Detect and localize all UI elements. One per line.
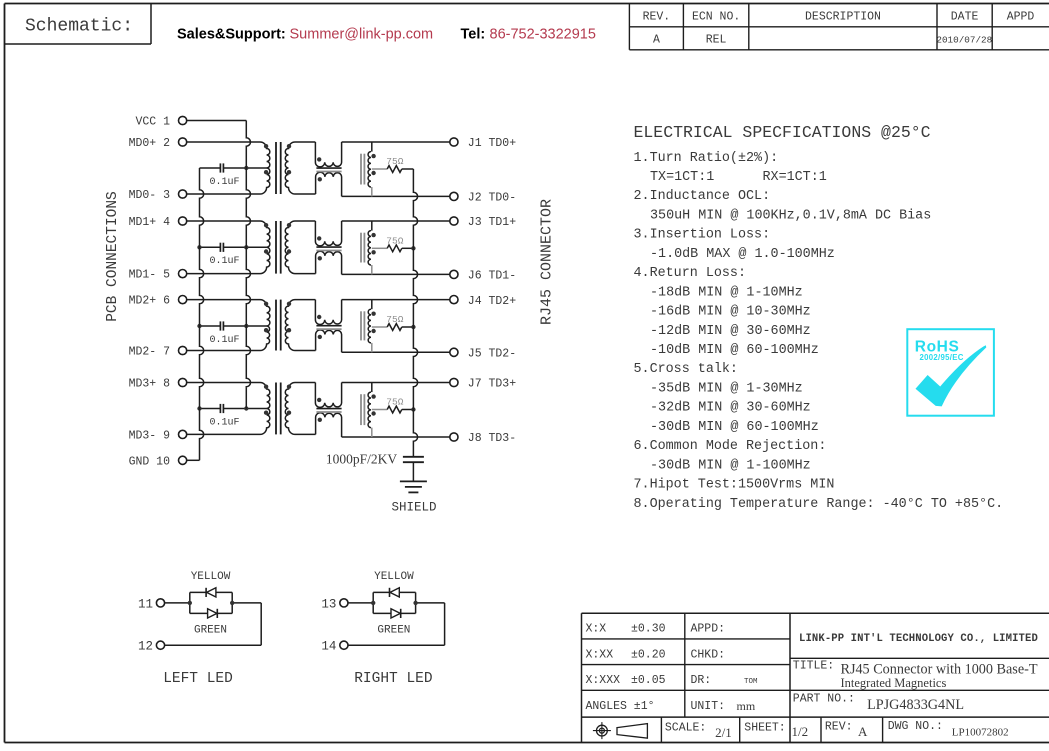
svg-text:J3 TD1+: J3 TD1+ (468, 216, 516, 229)
wire to J1 (342, 141, 450, 143)
svg-text:0.1uF: 0.1uF (209, 256, 239, 267)
svg-text:-16dB MIN @ 10-30MHz: -16dB MIN @ 10-30MHz (650, 305, 811, 320)
connector pin J5 TD2- (450, 348, 516, 361)
resistor R2 75ohm (372, 235, 414, 251)
svg-text:12: 12 (138, 640, 153, 654)
svg-text:ECN NO.: ECN NO. (692, 11, 740, 24)
transformer T2 core (276, 221, 281, 274)
svg-text:±0.30: ±0.30 (631, 623, 666, 636)
svg-text:PART NO.:: PART NO.: (793, 693, 855, 706)
svg-text:8.Operating Temperature Range:: 8.Operating Temperature Range: -40°C TO … (634, 497, 1004, 512)
junction: R4/termination rail (411, 407, 415, 411)
autotransformer A4 core (361, 394, 364, 425)
svg-text:Integrated Magnetics: Integrated Magnetics (840, 676, 946, 690)
svg-text:Tel:: Tel: (461, 27, 486, 43)
pin 5 MD1- (129, 269, 187, 282)
junction: C4/GND rail (197, 406, 201, 410)
svg-text:Schematic:: Schematic: (25, 17, 133, 37)
connector pin J4 TD2+ (450, 295, 516, 308)
title block grid (582, 613, 1049, 743)
svg-text:-32dB MIN @ 30-60MHz: -32dB MIN @ 30-60MHz (650, 401, 811, 416)
svg-text:ELECTRICAL SPECFICATIONS @25°C: ELECTRICAL SPECFICATIONS @25°C (634, 123, 931, 142)
svg-text:X:XXX: X:XXX (586, 674, 621, 687)
transformer T3 primary winding (187, 300, 270, 351)
svg-text:J1 TD0+: J1 TD0+ (468, 137, 516, 150)
junction: C2/VCC rail (244, 245, 248, 249)
wire to J6 (342, 273, 450, 275)
svg-text:±0.05: ±0.05 (631, 674, 666, 687)
svg-text:APPD: APPD (1007, 11, 1035, 24)
svg-text:GND 10: GND 10 (129, 455, 171, 468)
wire to J7 (342, 382, 450, 384)
svg-text:-30dB MIN @ 1-100MHz: -30dB MIN @ 1-100MHz (650, 458, 811, 473)
junction: C4/VCC rail (244, 406, 248, 410)
autotransformer A4 winding (368, 383, 376, 438)
svg-text:LEFT LED: LEFT LED (163, 671, 233, 687)
svg-text:11: 11 (138, 597, 153, 611)
pin 12 (138, 640, 165, 654)
svg-text:LINK-PP INT'L TECHNOLOGY CO.,: LINK-PP INT'L TECHNOLOGY CO., LIMITED (799, 633, 1038, 645)
PCB CONNECTIONS label (105, 191, 121, 322)
junction: C2/GND rail (197, 245, 201, 249)
svg-text:PCB CONNECTIONS: PCB CONNECTIONS (105, 191, 121, 322)
svg-text:REV.: REV. (643, 11, 671, 24)
tolerance table text (586, 623, 759, 714)
projection symbol (593, 722, 648, 739)
pin 8 MD3+ (129, 378, 187, 391)
common-mode choke L4 (315, 383, 341, 438)
svg-text:mm: mm (737, 699, 756, 713)
svg-text:MD0- 3: MD0- 3 (129, 189, 171, 202)
diode yellow LED (RIGHT LED) (374, 571, 414, 597)
svg-text:DR:: DR: (691, 674, 712, 687)
pin 11 (138, 597, 165, 611)
GND wire pin10 (187, 459, 200, 461)
pin 10 GND (129, 455, 187, 468)
common-mode choke L1 (315, 142, 341, 196)
wire secondary T1 to choke (295, 142, 316, 194)
svg-text:MD2+ 6: MD2+ 6 (129, 295, 171, 308)
svg-text:DWG NO.:: DWG NO.: (888, 720, 943, 733)
svg-text:SHEET:: SHEET: (744, 722, 785, 735)
shield ground (391, 481, 436, 514)
junction: C3/VCC rail (244, 324, 248, 328)
transformer T3 core (276, 300, 281, 351)
svg-text:5.Cross talk:: 5.Cross talk: (634, 362, 738, 377)
svg-text:MD0+ 2: MD0+ 2 (129, 137, 171, 150)
VCC rail (246, 121, 250, 409)
transformer T2 secondary winding (285, 221, 295, 274)
svg-text:75Ω: 75Ω (386, 156, 403, 167)
svg-text:GREEN: GREEN (377, 625, 410, 637)
svg-text:1.Turn Ratio(±2%):: 1.Turn Ratio(±2%): (634, 151, 779, 166)
wire secondary T2 to choke (295, 221, 316, 274)
svg-text:J4 TD2+: J4 TD2+ (468, 295, 516, 308)
connector pin J1 TD0+ (450, 137, 516, 150)
transformer T1 core (276, 142, 281, 194)
svg-text:ANGLES ±1°: ANGLES ±1° (586, 700, 655, 713)
diode green LED (RIGHT LED) (377, 609, 410, 637)
svg-text:14: 14 (321, 640, 336, 654)
svg-text:VCC 1: VCC 1 (135, 116, 170, 129)
diode green LED (LEFT LED) (194, 609, 227, 637)
svg-text:GREEN: GREEN (194, 625, 227, 637)
revision table (629, 4, 1049, 50)
svg-text:3.Insertion Loss:: 3.Insertion Loss: (634, 228, 771, 243)
pin 6 MD2+ (129, 295, 187, 308)
capacitor C1 0.1uF (200, 163, 267, 187)
svg-text:X:X: X:X (586, 623, 607, 636)
svg-text:350uH MIN @ 100KHz,0.1V,8mA DC: 350uH MIN @ 100KHz,0.1V,8mA DC Bias (650, 208, 931, 223)
autotransformer A2 winding (368, 221, 376, 274)
autotransformer A2 core (361, 233, 364, 263)
title text (793, 660, 1038, 690)
autotransformer A3 core (361, 311, 364, 340)
svg-text:86-752-3322915: 86-752-3322915 (490, 27, 596, 43)
svg-text:TITLE:: TITLE: (793, 660, 834, 673)
svg-text:MD3- 9: MD3- 9 (129, 429, 171, 442)
svg-text:7.Hipot Test:1500Vrms MIN: 7.Hipot Test:1500Vrms MIN (634, 478, 835, 493)
svg-text:APPD:: APPD: (691, 623, 726, 636)
pin 1 VCC (135, 116, 186, 129)
svg-text:X:XX: X:XX (586, 649, 614, 662)
junction: C1/VCC rail (244, 166, 248, 170)
svg-text:J8 TD3-: J8 TD3- (468, 432, 516, 445)
transformer T1 primary winding (187, 142, 270, 194)
svg-text:YELLOW: YELLOW (191, 571, 231, 583)
svg-text:13: 13 (321, 597, 336, 611)
resistor R4 75ohm (372, 397, 414, 413)
capacitor C5 1000pF/2KV (326, 452, 424, 482)
svg-text:-10dB MIN @ 60-100MHz: -10dB MIN @ 60-100MHz (650, 343, 819, 358)
svg-text:-1.0dB MAX @ 1.0-100MHz: -1.0dB MAX @ 1.0-100MHz (650, 247, 835, 262)
pin 9 MD3- (129, 429, 187, 442)
connector pin J2 TD0- (450, 192, 516, 205)
termination rail (Bob Smith) (413, 169, 417, 457)
svg-text:LPJG4833G4NL: LPJG4833G4NL (867, 697, 964, 713)
scale / sheet / rev / dwg cells (665, 720, 1009, 740)
transformer T4 core (276, 383, 281, 435)
svg-text:J7 TD3+: J7 TD3+ (468, 378, 516, 391)
svg-text:0.1uF: 0.1uF (209, 335, 239, 346)
capacitor C2 0.1uF (200, 243, 267, 267)
pin 4 MD1+ (129, 216, 187, 229)
sales support header (177, 27, 596, 43)
svg-text:REL: REL (706, 34, 727, 47)
svg-text:-18dB MIN @ 1-10MHz: -18dB MIN @ 1-10MHz (650, 285, 803, 300)
svg-text:SCALE:: SCALE: (665, 722, 706, 735)
svg-text:J5 TD2-: J5 TD2- (468, 348, 516, 361)
autotransformer A1 winding (368, 142, 376, 196)
svg-text:J2 TD0-: J2 TD0- (468, 192, 516, 205)
svg-text:TOM: TOM (744, 678, 758, 686)
svg-text:LP10072802: LP10072802 (952, 727, 1009, 739)
svg-text:A: A (653, 34, 660, 47)
connector pin J8 TD3- (450, 432, 516, 445)
svg-text:2010/07/28: 2010/07/28 (936, 35, 992, 46)
transformer T3 secondary winding (285, 300, 295, 351)
common-mode choke L2 (315, 221, 341, 274)
svg-text:2002/95/EC: 2002/95/EC (920, 353, 964, 362)
autotransformer A1 core (361, 154, 364, 185)
svg-text:YELLOW: YELLOW (374, 571, 414, 583)
capacitor C4 0.1uF (200, 404, 267, 428)
svg-text:J6 TD1-: J6 TD1- (468, 270, 516, 283)
svg-text:6.Common Mode Rejection:: 6.Common Mode Rejection: (634, 439, 827, 454)
svg-text:CHKD:: CHKD: (691, 649, 726, 662)
svg-text:UNIT:: UNIT: (691, 700, 726, 713)
Schematic title box (5, 4, 152, 45)
RJ45 CONNECTOR label (539, 199, 556, 325)
svg-text:75Ω: 75Ω (386, 397, 403, 408)
wire to J4 (342, 299, 450, 301)
connector pin J3 TD1+ (450, 216, 516, 229)
wire to J2 (342, 195, 450, 197)
svg-text:MD1+ 4: MD1+ 4 (129, 216, 171, 229)
svg-text:MD2- 7: MD2- 7 (129, 346, 170, 359)
wires RIGHT LED (348, 592, 445, 645)
svg-text:0.1uF: 0.1uF (209, 177, 239, 188)
pin 7 MD2- (129, 346, 187, 359)
svg-text:SHIELD: SHIELD (391, 501, 436, 515)
svg-text:-30dB MIN @ 60-100MHz: -30dB MIN @ 60-100MHz (650, 420, 819, 435)
transformer T1 secondary winding (285, 142, 295, 194)
connector pin J7 TD3+ (450, 378, 516, 391)
junction: R2/termination rail (411, 246, 415, 250)
wire to J3 (342, 220, 450, 222)
svg-text:-35dB MIN @ 1-30MHz: -35dB MIN @ 1-30MHz (650, 381, 803, 396)
GND rail (200, 168, 204, 460)
pin 3 MD0- (129, 189, 187, 202)
svg-text:DESCRIPTION: DESCRIPTION (805, 11, 881, 24)
svg-text:MD3+ 8: MD3+ 8 (129, 378, 171, 391)
svg-text:1000pF/2KV: 1000pF/2KV (326, 452, 398, 467)
svg-text:±0.20: ±0.20 (631, 649, 666, 662)
part number (793, 693, 964, 714)
common-mode choke L3 (315, 300, 341, 353)
junction: C3/GND rail (197, 324, 201, 328)
svg-text:MD1- 5: MD1- 5 (129, 269, 171, 282)
diode yellow LED (LEFT LED) (191, 571, 231, 597)
transformer T4 primary winding (187, 383, 270, 435)
autotransformer A3 winding (368, 300, 376, 353)
specifications text (634, 151, 1004, 512)
svg-text:RIGHT LED: RIGHT LED (354, 671, 432, 687)
pin 13 (321, 597, 348, 611)
svg-text:REV:: REV: (825, 721, 853, 734)
svg-text:75Ω: 75Ω (386, 235, 403, 246)
svg-text:DATE: DATE (951, 11, 979, 24)
wires LEFT LED (165, 592, 262, 645)
pin 14 (321, 640, 348, 654)
svg-text:75Ω: 75Ω (386, 314, 403, 325)
svg-text:1/2: 1/2 (792, 724, 809, 739)
svg-text:2/1: 2/1 (715, 725, 732, 740)
wire secondary T4 to choke (295, 383, 316, 435)
resistor R3 75ohm (372, 314, 414, 330)
svg-text:RJ45 CONNECTOR: RJ45 CONNECTOR (539, 199, 556, 325)
transformer T2 primary winding (187, 221, 270, 274)
capacitor C3 0.1uF (200, 321, 267, 345)
junction: R3/termination rail (411, 325, 415, 329)
pin 2 MD0+ (129, 137, 187, 150)
VCC wire pin1 (187, 120, 247, 122)
svg-text:A: A (858, 724, 868, 739)
wire secondary T3 to choke (295, 300, 316, 351)
wire to J8 (342, 436, 450, 438)
resistor R1 75ohm (372, 156, 414, 172)
svg-text:Sales&Support:: Sales&Support: (177, 27, 286, 43)
svg-text:Summer@link-pp.com: Summer@link-pp.com (290, 27, 434, 43)
svg-text:2.Inductance OCL:: 2.Inductance OCL: (634, 189, 771, 204)
svg-text:4.Return Loss:: 4.Return Loss: (634, 266, 747, 281)
connector pin J6 TD1- (450, 270, 516, 283)
wire to J5 (342, 351, 450, 353)
RoHS logo (907, 329, 994, 416)
svg-text:0.1uF: 0.1uF (209, 417, 239, 428)
svg-text:-12dB MIN @ 30-60MHz: -12dB MIN @ 30-60MHz (650, 324, 811, 339)
svg-text:TX=1CT:1 RX=1CT:1: TX=1CT:1 RX=1CT:1 (650, 170, 827, 185)
transformer T4 secondary winding (285, 383, 295, 435)
